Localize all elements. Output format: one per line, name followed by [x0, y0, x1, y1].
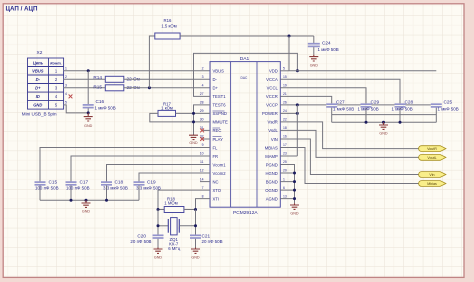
- svg-text:TEST1: TEST1: [213, 94, 227, 99]
- wire XTI pin 8 down to oscillator: [196, 199, 211, 210]
- svg-text:VCCR: VCCR: [266, 94, 278, 99]
- capacitor C15: [35, 181, 46, 183]
- svg-text:ID: ID: [36, 94, 40, 99]
- svg-text:100 пФ 50В: 100 пФ 50В: [35, 186, 59, 191]
- node rail ground tap: [85, 199, 88, 202]
- resistor R16: [155, 33, 180, 39]
- svg-text:REC: REC: [213, 128, 222, 133]
- svg-text:VIN: VIN: [271, 137, 278, 142]
- node VCCP junction: [296, 103, 299, 106]
- no-connect X on REC pin 31: [200, 129, 204, 133]
- svg-text:4: 4: [202, 84, 204, 88]
- svg-text:TEST6: TEST6: [213, 103, 227, 108]
- svg-text:C24: C24: [322, 40, 331, 45]
- svg-text:PCM2912A: PCM2912A: [233, 210, 258, 216]
- wire VIN to Vin flag: [280, 139, 419, 175]
- ground under C24: [309, 55, 318, 61]
- net flag VoutL: [419, 155, 446, 161]
- svg-text:17: 17: [283, 143, 287, 147]
- svg-text:2: 2: [65, 75, 67, 79]
- svg-text:AGND: AGND: [266, 196, 278, 201]
- svg-text:1 МОм: 1 МОм: [164, 201, 178, 206]
- ground under C21: [191, 248, 200, 254]
- svg-text:GND: GND: [33, 103, 42, 108]
- svg-text:9: 9: [202, 143, 204, 147]
- svg-text:19: 19: [283, 84, 287, 88]
- svg-text:GND: GND: [82, 209, 91, 213]
- node TEST1 tie junction on VDD: [296, 69, 299, 72]
- wire TEST1 tie to VDD over the IC: [194, 53, 298, 96]
- svg-text:10: 10: [200, 152, 204, 156]
- svg-text:20 пФ 50В: 20 пФ 50В: [202, 239, 223, 244]
- net flag Vin: [419, 172, 446, 178]
- svg-text:FL: FL: [213, 145, 219, 150]
- svg-text:VBUS: VBUS: [32, 69, 44, 74]
- svg-text:26: 26: [283, 101, 287, 105]
- wire VsdR to VoutR flag: [280, 122, 419, 149]
- node BGND on bus: [293, 180, 296, 183]
- wire Vcom1 pin 11 to C18: [107, 165, 211, 182]
- svg-text:GND: GND: [191, 255, 200, 259]
- svg-text:NC: NC: [213, 179, 219, 184]
- svg-text:14: 14: [200, 177, 204, 181]
- svg-text:22: 22: [283, 118, 287, 122]
- svg-text:1 мкФ 50В: 1 мкФ 50В: [438, 107, 459, 112]
- svg-text:C20: C20: [137, 234, 146, 239]
- crystal ZQ1: [158, 225, 168, 227]
- capacitor C27: [331, 107, 333, 122]
- wire Vcom2 pin 12 to C19: [139, 173, 210, 182]
- no-connect X on ID pin: [69, 95, 73, 99]
- node C29 on rail: [365, 121, 368, 124]
- node XTI/R18 junction: [194, 208, 197, 211]
- wire left branch down to C20: [157, 210, 159, 235]
- node rail ground tap: [382, 121, 385, 124]
- svg-text:1 мкФ 50В: 1 мкФ 50В: [358, 107, 379, 112]
- wire R15 to DA1 pin 4: [124, 87, 210, 89]
- capacitor C25: [435, 107, 437, 122]
- svg-text:C16: C16: [96, 99, 105, 104]
- wire drop to VDD pin 5: [288, 36, 290, 71]
- node D+/R16 junction: [148, 86, 151, 89]
- svg-text:1 мкФ 50В: 1 мкФ 50В: [318, 47, 339, 52]
- capacitor C16: [83, 104, 94, 106]
- svg-text:1.5 кОм: 1.5 кОм: [161, 23, 176, 28]
- svg-text:PGND: PGND: [266, 162, 278, 167]
- svg-text:5: 5: [283, 67, 285, 71]
- svg-text:1 кОм: 1 кОм: [161, 106, 173, 111]
- svg-text:C25: C25: [444, 99, 453, 104]
- wire VBUS connector to DA1 pin 2: [64, 70, 211, 72]
- capacitor C16 lead from VBUS: [87, 71, 89, 105]
- svg-text:100 пФ 50В: 100 пФ 50В: [66, 186, 90, 191]
- svg-text:16: 16: [283, 135, 287, 139]
- svg-text:Цепь: Цепь: [33, 60, 44, 65]
- DA1 right pin numbers: [283, 67, 287, 199]
- svg-text:21: 21: [283, 92, 287, 96]
- node XTO/R18 junction: [157, 208, 160, 211]
- ground under caps rail: [379, 122, 388, 129]
- svg-text:GND: GND: [379, 131, 388, 135]
- svg-text:MBIAS: MBIAS: [265, 145, 278, 150]
- wire VCCP/POWER/MAMP tie: [296, 105, 298, 156]
- svg-text:4: 4: [65, 92, 67, 96]
- ground under C16: [84, 113, 93, 121]
- svg-text:1 мкФ 50В: 1 мкФ 50В: [95, 105, 116, 110]
- wire MBIAS to Mbias flag: [280, 148, 419, 184]
- svg-text:6 МГц: 6 МГц: [168, 246, 180, 251]
- DA1 right pin stubs: [280, 71, 297, 156]
- wire TEST6 to ground drop: [194, 105, 211, 135]
- svg-text:30: 30: [200, 118, 204, 122]
- capacitor C21: [190, 234, 201, 236]
- svg-text:VsdR: VsdR: [268, 120, 278, 125]
- wire R17 right lead to SSPND pin 29: [176, 112, 211, 114]
- resistor R14: [105, 76, 124, 82]
- wire D- connector to R14: [64, 78, 106, 80]
- node crystal right junction: [194, 224, 197, 227]
- svg-text:3.3 мкФ 50В: 3.3 мкФ 50В: [103, 186, 128, 191]
- node AGND on bus: [293, 197, 296, 200]
- ground under C20: [154, 248, 163, 254]
- svg-text:15: 15: [283, 75, 287, 79]
- wire R16 to C24: [180, 35, 314, 37]
- svg-text:24: 24: [283, 109, 287, 113]
- no-connect X on PLAY pin 32: [200, 137, 204, 141]
- svg-text:3.3 мкФ 50В: 3.3 мкФ 50В: [136, 186, 161, 191]
- svg-text:VBUS: VBUS: [213, 69, 225, 74]
- ground under pin bus: [290, 203, 299, 209]
- op-amp codec DA1 body: [210, 62, 280, 208]
- svg-text:PLAY: PLAY: [213, 137, 224, 142]
- svg-text:27: 27: [200, 92, 204, 96]
- node HGND on bus: [293, 172, 296, 175]
- svg-text:C17: C17: [80, 179, 89, 184]
- svg-text:VoutL: VoutL: [427, 156, 436, 160]
- net flag VoutR: [419, 146, 446, 152]
- DA1 left pin names: [213, 69, 229, 202]
- node MMUTE/ground-drop junction: [192, 120, 195, 123]
- capacitor C29: [365, 107, 367, 122]
- connector X2 contact numbers: [55, 69, 58, 108]
- wire ground rail under caps: [332, 121, 437, 123]
- wire FR pin 10 to C17: [71, 156, 210, 182]
- svg-text:XTI: XTI: [213, 196, 220, 201]
- svg-text:1: 1: [65, 67, 67, 71]
- svg-text:GND: GND: [189, 141, 198, 145]
- node R16 rail / VDD drop junction: [288, 35, 291, 38]
- svg-text:X2: X2: [37, 50, 43, 56]
- svg-text:GND: GND: [310, 64, 319, 68]
- svg-text:Mbias: Mbias: [427, 182, 437, 186]
- svg-text:R15: R15: [93, 85, 102, 90]
- capacitor C19: [134, 181, 145, 183]
- svg-text:DA1: DA1: [240, 56, 250, 62]
- svg-text:VCCL: VCCL: [267, 86, 279, 91]
- svg-text:VsdL: VsdL: [268, 128, 278, 133]
- node OGND on bus: [293, 189, 296, 192]
- resistor R15: [105, 85, 124, 91]
- svg-text:SSPND: SSPND: [213, 111, 227, 116]
- capacitor C28: [399, 107, 401, 122]
- wire FL pin 9 to C15: [40, 148, 210, 182]
- wire mid tie line under caps: [332, 114, 437, 116]
- connector X2 net names: [32, 69, 44, 108]
- svg-text:XTO: XTO: [213, 188, 222, 193]
- svg-text:BGND: BGND: [266, 179, 278, 184]
- svg-text:Vcom1: Vcom1: [213, 162, 227, 167]
- wire connector GND pin to C16 node: [64, 105, 89, 113]
- svg-text:C28: C28: [405, 99, 414, 104]
- svg-text:POWER: POWER: [262, 111, 278, 116]
- svg-text:3: 3: [65, 84, 67, 88]
- DA1 left pin stubs: [200, 130, 210, 181]
- wire VCCR to C27: [280, 96, 331, 103]
- svg-text:Mini USB_B 5pin: Mini USB_B 5pin: [22, 111, 57, 116]
- svg-text:11: 11: [200, 160, 204, 164]
- DA1 active-low overlines SSPND REC PLAY: [213, 111, 225, 137]
- ground under rail: [82, 200, 91, 207]
- svg-text:MMUTE: MMUTE: [213, 120, 229, 125]
- svg-text:2: 2: [202, 67, 204, 71]
- wire VCCA to C28: [280, 79, 400, 103]
- svg-text:R14: R14: [93, 75, 102, 80]
- svg-text:7: 7: [202, 186, 204, 190]
- svg-text:13: 13: [283, 194, 287, 198]
- node VBUS/C16 junction: [87, 69, 90, 72]
- svg-text:25: 25: [283, 160, 287, 164]
- svg-text:OGND: OGND: [265, 188, 278, 193]
- wire VCCP bus across caps: [297, 104, 326, 106]
- svg-text:28: 28: [200, 101, 204, 105]
- svg-text:VCCA: VCCA: [266, 77, 278, 82]
- node C17 on rail: [70, 199, 73, 202]
- svg-text:DAC: DAC: [241, 76, 248, 80]
- wire D+ connector to R15: [64, 87, 106, 89]
- svg-text:C27: C27: [336, 99, 345, 104]
- svg-text:C18: C18: [115, 179, 124, 184]
- wire R17 left loop to MMUTE pin 30: [150, 113, 210, 122]
- svg-text:ЦАП / АЦП: ЦАП / АЦП: [6, 6, 38, 13]
- wire VCCL to C29: [280, 88, 366, 104]
- wire R14 to DA1 pin 3: [124, 78, 210, 80]
- DA1 right pin names: [262, 69, 278, 202]
- svg-text:Конт.: Конт.: [50, 60, 61, 65]
- svg-text:C21: C21: [202, 234, 211, 239]
- svg-text:GND: GND: [290, 211, 299, 215]
- svg-text:D+: D+: [35, 86, 41, 91]
- svg-text:VDD: VDD: [269, 69, 278, 74]
- svg-text:12: 12: [200, 169, 204, 173]
- svg-text:23: 23: [283, 152, 287, 156]
- svg-text:C15: C15: [49, 179, 58, 184]
- svg-text:5: 5: [65, 101, 67, 105]
- svg-text:1 мкФ 50В: 1 мкФ 50В: [392, 107, 413, 112]
- resistor R18: [158, 209, 164, 211]
- svg-text:8: 8: [202, 194, 204, 198]
- node C18 on rail: [105, 199, 108, 202]
- svg-text:C29: C29: [371, 99, 380, 104]
- svg-text:GND: GND: [154, 255, 163, 259]
- wire D+ up to R16: [149, 36, 154, 88]
- svg-text:GND: GND: [84, 124, 93, 128]
- svg-text:Vcom2: Vcom2: [213, 171, 227, 176]
- svg-text:3: 3: [202, 75, 204, 79]
- svg-text:VCCP: VCCP: [266, 103, 278, 108]
- node C28 on rail: [399, 121, 402, 124]
- svg-text:1: 1: [283, 177, 285, 181]
- svg-text:6: 6: [283, 186, 285, 190]
- svg-text:D-: D-: [36, 77, 41, 82]
- svg-text:VoutR: VoutR: [427, 147, 437, 151]
- wire PGND-AGND ground bus: [280, 165, 294, 204]
- svg-text:D+: D+: [213, 86, 219, 91]
- connector X2 external pin numbers: [65, 67, 67, 105]
- node crystal left junction: [157, 224, 160, 227]
- wire ground rail under C15-C19: [40, 199, 139, 201]
- node R17/ground-drop junction: [192, 112, 195, 115]
- connector X2 table body: [28, 58, 64, 109]
- wire VsdL to VoutL flag: [280, 130, 419, 157]
- capacitor C18: [101, 181, 112, 183]
- svg-text:MAMP: MAMP: [265, 154, 278, 159]
- svg-text:Vin: Vin: [429, 173, 434, 177]
- node POWER junction: [296, 112, 299, 115]
- wire right branch down to C21: [195, 210, 197, 235]
- svg-text:20 пФ 50В: 20 пФ 50В: [130, 239, 151, 244]
- svg-text:20: 20: [283, 169, 287, 173]
- node C16/GND junction: [87, 111, 90, 114]
- capacitor C17: [66, 181, 77, 183]
- svg-text:D-: D-: [213, 77, 218, 82]
- capacitor C24: [313, 36, 315, 43]
- svg-text:1 мкФ 50В: 1 мкФ 50В: [333, 107, 354, 112]
- capacitor C20: [153, 234, 164, 236]
- svg-text:29: 29: [200, 109, 204, 113]
- svg-text:HGND: HGND: [265, 171, 277, 176]
- resistor R17: [158, 110, 176, 116]
- ground under TEST6 drop: [189, 135, 198, 140]
- DA1 left pin numbers: [200, 67, 204, 199]
- svg-text:18: 18: [283, 126, 287, 130]
- svg-text:C19: C19: [147, 179, 156, 184]
- wire VDD rail to C25: [289, 70, 436, 72]
- svg-text:FR: FR: [213, 154, 219, 159]
- wire XTO pin 7 down to oscillator: [158, 190, 210, 209]
- net flag Mbias: [419, 181, 446, 187]
